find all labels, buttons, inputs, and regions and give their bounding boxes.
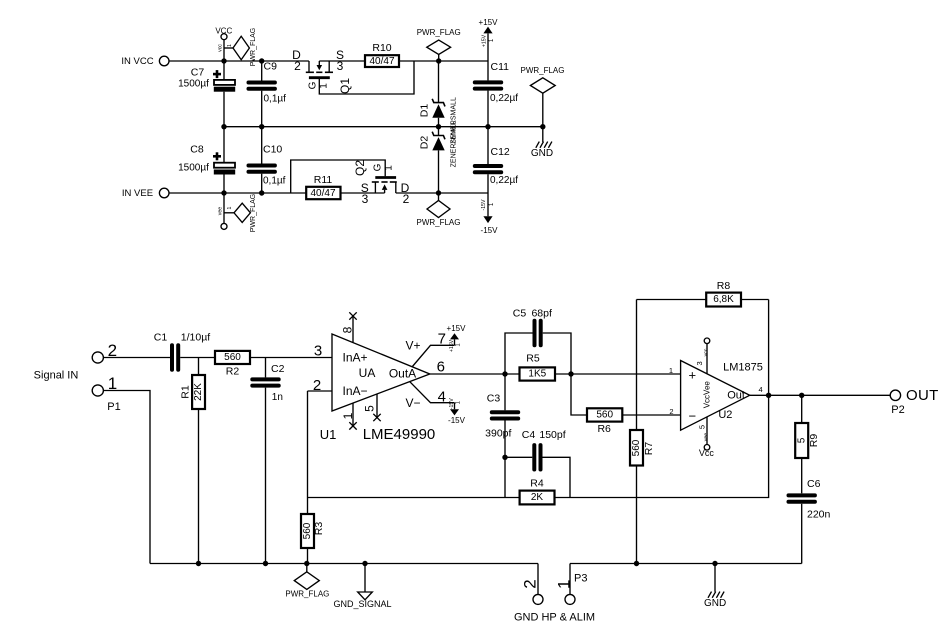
resistor R3 560 — [301, 514, 325, 564]
power flag PWR_FLAG on -15V rail — [416, 193, 460, 227]
resistor R1 22K — [180, 358, 206, 564]
capacitor C10 0,1uF — [249, 127, 286, 193]
svg-text:PWR_FLAG: PWR_FLAG — [250, 194, 257, 233]
svg-text:PWR_FLAG: PWR_FLAG — [417, 28, 461, 37]
svg-text:Q1: Q1 — [338, 78, 352, 94]
wire R10 to +15V node — [399, 60, 488, 62]
svg-text:IN VEE: IN VEE — [122, 188, 153, 199]
transistor Q1 — [292, 48, 352, 94]
svg-text:4: 4 — [438, 388, 446, 405]
wire R6 to U2 pin2 — [622, 407, 680, 416]
svg-text:G: G — [373, 163, 384, 171]
svg-text:P2: P2 — [891, 404, 904, 416]
svg-text:2: 2 — [294, 59, 301, 73]
svg-text:PWR_FLAG: PWR_FLAG — [520, 66, 564, 75]
svg-text:1: 1 — [341, 412, 355, 419]
svg-text:Signal IN: Signal IN — [34, 369, 79, 381]
zener diode D2 — [418, 121, 457, 193]
svg-text:+: + — [689, 367, 697, 382]
svg-text:R2: R2 — [226, 365, 240, 377]
svg-text:IN VCC: IN VCC — [121, 56, 153, 67]
svg-text:Out: Out — [727, 389, 745, 401]
op-amp U2 LM1875 — [681, 338, 763, 458]
wire R8 left leg down to R7 — [636, 300, 638, 431]
svg-text:0,22µf: 0,22µf — [490, 175, 518, 186]
svg-text:C12: C12 — [491, 146, 510, 158]
capacitor C11 0,22uF — [475, 61, 518, 127]
svg-text:OutA: OutA — [389, 367, 416, 381]
svg-text:V−: V− — [405, 396, 420, 410]
wire VCC input rail — [169, 60, 309, 62]
svg-text:150pf: 150pf — [539, 429, 565, 441]
svg-text:ZENERSMALL: ZENERSMALL — [450, 121, 457, 168]
svg-text:GND: GND — [531, 148, 553, 159]
svg-text:R11: R11 — [314, 174, 333, 186]
svg-text:-15V: -15V — [448, 416, 466, 425]
wire ground rail right — [570, 563, 802, 565]
connector IN VEE — [122, 188, 169, 199]
svg-text:1500µf: 1500µf — [178, 78, 209, 89]
svg-text:vcc: vcc — [703, 348, 709, 356]
power symbol +15V (top) — [479, 18, 499, 61]
svg-text:R4: R4 — [530, 478, 544, 490]
power symbol VCC — [215, 27, 232, 61]
wire R2 to U1 pin3 — [250, 357, 332, 359]
power symbol +15V (U1 pin7) — [447, 324, 467, 352]
svg-text:-15V: -15V — [449, 398, 455, 409]
ground GND (bottom) — [704, 564, 726, 610]
svg-text:8: 8 — [341, 326, 355, 333]
svg-text:LM1875: LM1875 — [723, 361, 763, 373]
svg-text:C9: C9 — [264, 61, 278, 73]
svg-text:C5: C5 — [513, 308, 527, 320]
power flag PWR_FLAG on GND rail — [520, 66, 564, 127]
connector P1 Signal IN — [34, 341, 121, 413]
svg-text:40/47: 40/47 — [310, 188, 335, 199]
svg-text:PWR_FLAG: PWR_FLAG — [416, 218, 460, 227]
svg-text:Q2: Q2 — [353, 160, 367, 176]
wire C3 bottom to feedback rail — [504, 457, 506, 497]
svg-text:40/47: 40/47 — [369, 56, 394, 67]
svg-text:C6: C6 — [807, 478, 821, 490]
svg-text:LME49990: LME49990 — [363, 426, 436, 443]
svg-text:R6: R6 — [597, 423, 611, 435]
svg-text:4: 4 — [759, 385, 763, 394]
svg-text:U2: U2 — [718, 409, 732, 421]
svg-text:+15V: +15V — [447, 324, 467, 333]
capacitor C12 0,22uF — [475, 127, 518, 193]
svg-text:R7: R7 — [643, 442, 655, 456]
svg-text:68pf: 68pf — [531, 308, 552, 320]
resistor R7 560 — [630, 430, 655, 564]
svg-text:R5: R5 — [526, 352, 540, 364]
svg-text:D2: D2 — [418, 136, 430, 150]
svg-text:5: 5 — [697, 425, 706, 429]
svg-text:-15V: -15V — [481, 226, 499, 235]
capacitor C1 1/10uF — [154, 332, 215, 370]
svg-text:6: 6 — [437, 359, 445, 376]
svg-text:+15V: +15V — [479, 18, 499, 27]
svg-text:Vcc: Vcc — [699, 448, 715, 458]
svg-text:C10: C10 — [263, 144, 282, 156]
svg-text:1: 1 — [227, 44, 233, 47]
capacitor C8 1500uF — [178, 127, 235, 193]
svg-text:V+: V+ — [405, 339, 420, 353]
wire P1.2 to C1 — [103, 357, 170, 359]
svg-text:5: 5 — [362, 405, 376, 412]
svg-text:1500µf: 1500µf — [178, 163, 209, 174]
wire GND middle rail — [224, 126, 543, 128]
svg-text:R9: R9 — [808, 434, 820, 448]
svg-text:C4: C4 — [522, 429, 536, 441]
svg-text:GND_SIGNAL: GND_SIGNAL — [333, 599, 391, 609]
svg-text:PWR_FLAG: PWR_FLAG — [250, 28, 257, 67]
resistor R10 40/47 — [365, 42, 399, 67]
wire R5 to U2 pin1 — [555, 366, 681, 375]
svg-text:1: 1 — [319, 83, 330, 89]
svg-text:P3: P3 — [574, 572, 587, 584]
svg-text:560: 560 — [302, 522, 313, 539]
wire P1.1 to ground rail — [103, 391, 150, 564]
ground GND_SIGNAL — [333, 564, 391, 610]
svg-text:InA−: InA− — [343, 384, 368, 398]
svg-text:P1: P1 — [107, 401, 120, 413]
svg-text:UA: UA — [359, 366, 376, 380]
capacitor C2 1n — [252, 358, 284, 564]
wire R11 to Q2 source — [341, 192, 385, 194]
resistor R9 5 — [795, 395, 820, 493]
wire Q1 gate loop — [319, 61, 414, 94]
power symbol -15V (U1 pin4) — [448, 398, 466, 425]
svg-text:2: 2 — [669, 407, 673, 416]
svg-text:GND: GND — [704, 598, 726, 609]
svg-text:VccVee: VccVee — [702, 381, 711, 409]
wire VEE input rail — [169, 192, 306, 194]
resistor R2 560 — [215, 351, 250, 377]
connector IN VCC — [121, 56, 169, 67]
svg-text:1: 1 — [227, 206, 233, 209]
transistor Q2 — [353, 160, 410, 206]
svg-text:1: 1 — [554, 579, 573, 588]
svg-text:220n: 220n — [807, 509, 831, 521]
svg-text:3: 3 — [362, 192, 369, 206]
svg-text:2: 2 — [403, 192, 410, 206]
svg-text:+15V: +15V — [449, 339, 455, 352]
svg-text:vcc: vcc — [217, 44, 223, 52]
svg-text:2: 2 — [313, 377, 321, 394]
zener diode D1 — [418, 61, 457, 144]
connector P2 OUT — [890, 387, 938, 416]
svg-text:0,1µf: 0,1µf — [263, 176, 286, 187]
svg-text:1n: 1n — [272, 392, 283, 403]
svg-text:+15V: +15V — [481, 34, 487, 47]
svg-text:OUT: OUT — [906, 387, 939, 404]
svg-text:1/10µf: 1/10µf — [181, 332, 210, 344]
svg-text:R8: R8 — [717, 280, 731, 292]
node junction dots (bottom section) — [196, 371, 805, 566]
svg-text:C1: C1 — [154, 332, 168, 344]
power symbol -15V (top) — [481, 193, 499, 235]
op-amp U1 LME49990 — [313, 312, 455, 443]
svg-text:vee: vee — [703, 433, 709, 441]
resistor R4 2K — [520, 478, 555, 505]
power flag PWR_FLAG on signal ground — [285, 564, 329, 599]
resistor R8 6,8K feedback — [637, 280, 769, 306]
power flag PWR_FLAG on VCC — [224, 28, 257, 67]
wire Q2 gate loop — [291, 160, 386, 193]
svg-text:560: 560 — [224, 352, 241, 363]
svg-text:0,22µf: 0,22µf — [490, 93, 518, 104]
wire U2 output to OUT — [750, 394, 891, 396]
capacitor C5 68pf — [505, 308, 571, 374]
svg-text:R3: R3 — [313, 522, 325, 536]
svg-text:1: 1 — [384, 165, 395, 171]
power flag PWR_FLAG on +15V rail — [417, 28, 461, 61]
svg-text:GND HP & ALIM: GND HP & ALIM — [514, 611, 595, 623]
svg-text:560: 560 — [596, 410, 613, 421]
svg-text:2K: 2K — [531, 492, 544, 503]
svg-text:3: 3 — [337, 59, 344, 73]
svg-text:3: 3 — [314, 343, 322, 360]
svg-text:R10: R10 — [372, 42, 391, 54]
svg-text:22K: 22K — [193, 383, 204, 401]
svg-text:560: 560 — [631, 439, 642, 456]
svg-text:InA+: InA+ — [343, 351, 368, 365]
power symbol VEE — [217, 193, 233, 229]
svg-text:PWR_FLAG: PWR_FLAG — [285, 589, 329, 598]
svg-text:1: 1 — [669, 366, 673, 375]
svg-text:7: 7 — [438, 330, 446, 347]
wire Q2 drain to -15V node — [396, 192, 488, 194]
svg-text:6,8K: 6,8K — [713, 294, 734, 305]
svg-text:-15V: -15V — [481, 199, 487, 210]
svg-text:3: 3 — [695, 361, 704, 365]
svg-text:VCC: VCC — [215, 27, 232, 36]
svg-text:5: 5 — [796, 437, 807, 443]
svg-text:U1: U1 — [320, 427, 337, 442]
svg-text:390pf: 390pf — [485, 427, 511, 439]
connector P3 GND HP & ALIM — [514, 564, 595, 624]
svg-text:0,1µf: 0,1µf — [264, 94, 287, 105]
resistor R6 560 — [571, 374, 622, 435]
wire feedback rail to R4 — [308, 497, 520, 499]
wire R4 to output node — [555, 300, 769, 498]
svg-text:2: 2 — [520, 579, 539, 588]
resistor R11 40/47 — [306, 174, 340, 199]
wire Q1 source to R10 — [319, 60, 365, 62]
svg-text:C2: C2 — [271, 363, 285, 375]
svg-text:vee: vee — [217, 207, 223, 215]
svg-text:1K5: 1K5 — [528, 369, 546, 380]
svg-text:C3: C3 — [487, 393, 501, 405]
resistor R5 1K5 — [520, 352, 556, 380]
ground GND (top) — [531, 127, 553, 159]
capacitor C7 1500uF — [178, 61, 235, 127]
capacitor C9 0,1uF — [249, 61, 287, 127]
svg-text:C11: C11 — [491, 61, 510, 73]
node junction dots (top section) — [221, 58, 545, 195]
wire U1 pin6 output — [430, 359, 520, 376]
svg-text:G: G — [308, 81, 319, 89]
svg-text:D1: D1 — [418, 104, 430, 118]
wire U1 pin2 feedback loop — [308, 391, 333, 514]
svg-text:C7: C7 — [191, 67, 205, 79]
capacitor C6 220n — [789, 478, 831, 564]
svg-text:R1: R1 — [180, 385, 192, 399]
svg-text:−: − — [689, 408, 697, 423]
svg-text:C8: C8 — [190, 144, 204, 156]
capacitor C3 390pf — [485, 374, 518, 457]
power flag PWR_FLAG on VEE — [224, 194, 257, 233]
wire ground rail left — [150, 563, 538, 565]
capacitor C4 150pf — [505, 429, 570, 497]
